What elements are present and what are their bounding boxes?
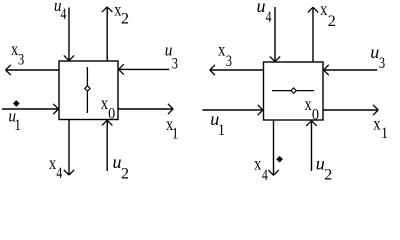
svg-text:4: 4 [60,5,66,23]
svg-text:x: x [320,0,327,20]
left system block (box) [59,61,118,120]
arrowhead x3 (left) [6,65,11,70]
svg-text:2: 2 [324,166,332,183]
arrowhead x2 (left) [102,7,107,12]
svg-text:u: u [370,42,379,62]
arrowhead u4 (right) [270,56,275,61]
arrowhead u2 (left) [102,120,107,125]
svg-text:0: 0 [108,106,115,123]
arrowhead u3 (left) [119,64,124,69]
svg-text:x: x [218,39,225,60]
left inner origin marker (open diamond) [85,86,90,91]
wire u4 (left, input top-left) [68,8,70,61]
svg-text:0: 0 [312,107,319,124]
svg-text:u: u [257,0,266,16]
svg-text:x: x [49,152,56,173]
svg-text:x: x [305,93,312,114]
arrowhead x3 (right) [210,65,215,70]
wire u4 (right, input top-left) [274,7,276,62]
svg-text:x: x [254,153,261,174]
svg-text:2: 2 [121,10,129,27]
svg-text:1: 1 [381,125,388,142]
arrowhead x1 (left) [168,104,173,109]
wire u1 (right, input left-bottom) [202,109,263,111]
svg-text:2: 2 [328,13,336,30]
marker diamond near x4 (right) [277,157,282,162]
wire x4 (right, output bottom-left) [273,120,275,175]
right system block (box) [264,62,324,120]
arrowhead x1 (right) [373,105,378,110]
svg-text:2: 2 [121,165,129,182]
wire x2 (right, output top-right) [312,7,314,62]
svg-text:4: 4 [56,165,62,183]
svg-text:4: 4 [266,8,272,26]
wire x2 (left, output top-right) [106,7,108,61]
svg-text:1: 1 [14,117,21,134]
marker diamond on u1 (left) [14,101,19,106]
wire x3 (right, output left-top) [210,69,264,71]
svg-text:3: 3 [379,54,385,72]
arrowhead x4 (left) [64,170,69,175]
wire u2 (left, input bottom-right) [106,120,108,171]
svg-text:1: 1 [172,126,179,143]
wire x3 (left, output left-top) [6,69,59,71]
svg-text:3: 3 [226,52,232,70]
svg-text:x: x [101,93,108,114]
left inner axis (vertical line) [86,67,88,113]
wire u2 (right, input bottom-right) [311,121,313,171]
svg-text:4: 4 [262,167,268,185]
wire u1 (left, input left-bottom) [2,108,58,110]
wire u3 (right, input right-top) [324,69,378,71]
svg-text:3: 3 [18,51,24,69]
svg-text:x: x [373,113,380,134]
wire x1 (right, output right-bottom) [323,109,378,111]
arrowhead u1 (left) [53,104,58,109]
right inner axis (horizontal line) [272,90,314,92]
wire x1 (left, output right-bottom) [118,108,173,110]
right inner origin marker (open diamond) [291,88,296,93]
arrowhead u4 (left) [64,55,69,60]
arrowhead x4 (right) [268,170,273,175]
arrowhead u1 (right) [258,105,263,110]
svg-text:x: x [11,38,18,59]
arrowhead u3 (right) [324,65,329,70]
svg-text:3: 3 [172,55,178,73]
arrowhead x2 (right) [308,7,313,12]
svg-text:1: 1 [218,122,225,139]
arrowhead u2 (right) [306,121,311,126]
wire x4 (left, output bottom-left) [68,120,70,176]
wire u3 (left, input right-top) [119,68,170,70]
